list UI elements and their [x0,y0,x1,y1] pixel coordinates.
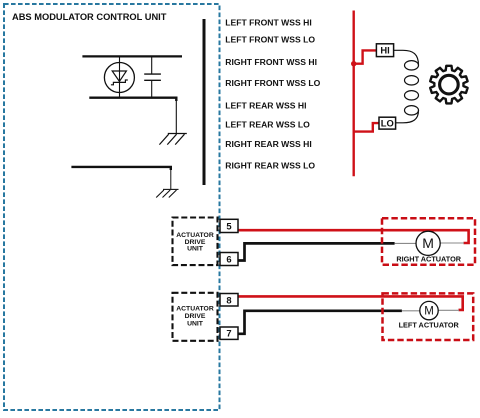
svg-text:LEFT REAR WSS HI: LEFT REAR WSS HI [225,101,306,111]
wire: pin 6 to right actuator (black) [238,243,395,260]
wire: HI terminal to coil [394,50,419,65]
tone ring (gear) [430,66,467,104]
svg-text:RIGHT FRONT WSS HI: RIGHT FRONT WSS HI [225,57,317,67]
svg-text:LEFT REAR WSS LO: LEFT REAR WSS LO [225,119,310,129]
wire: pin 7 to left actuator (black) [238,311,402,334]
ground (upper) [159,134,186,145]
svg-text:LEFT FRONT WSS HI: LEFT FRONT WSS HI [225,18,311,28]
wire: red branch to LO terminal [354,123,379,132]
wire: lower bus [89,98,176,101]
inductor: wheel speed sensor coil [405,61,419,115]
wire: WSS supply main (red) [353,11,355,177]
wire: top bus [82,55,182,57]
wire: red branch to HI terminal [354,50,377,63]
svg-text:8: 8 [226,294,231,305]
svg-text:RIGHT REAR WSS LO: RIGHT REAR WSS LO [225,160,315,170]
motor M (right actuator) [416,231,440,255]
junction: HI branch [351,61,356,66]
svg-text:M: M [422,235,434,251]
svg-text:ACTUATOR: ACTUATOR [176,306,214,313]
wire: lead to lower ground [170,168,172,189]
pin 8 [220,294,238,307]
actuator drive unit 1 (black dashed box) [173,218,218,266]
svg-text:7: 7 [226,328,231,339]
svg-text:LEFT ACTUATOR: LEFT ACTUATOR [399,321,460,330]
capacitor C1 [144,56,161,97]
label: ACTUATOR DRIVE UNIT (upper) [176,232,214,253]
pin 5 [220,219,238,232]
left actuator enclosure (red dashed box) [383,293,474,340]
label: ACTUATOR DRIVE UNIT (lower) [176,306,214,328]
ground (lower) [156,189,178,197]
svg-text:LEFT FRONT WSS LO: LEFT FRONT WSS LO [225,35,315,45]
motor lead left (right actuator) [395,242,416,244]
motor lead right (left actuator) [438,309,459,311]
svg-text:5: 5 [226,221,231,232]
actuator drive unit 2 (black dashed box) [173,293,218,341]
pin 7 [220,327,238,339]
right actuator enclosure (red dashed box) [382,218,475,265]
wire: lead to upper ground [175,99,177,134]
zener diode D1 [104,56,134,97]
motor M (left actuator) [420,301,438,319]
connector bar [203,19,206,185]
svg-text:RIGHT ACTUATOR: RIGHT ACTUATOR [396,255,461,264]
svg-text:HI: HI [380,45,389,56]
svg-text:M: M [424,306,434,318]
svg-text:DRIVE: DRIVE [185,313,206,320]
motor lead left (left actuator) [402,310,420,312]
svg-text:UNIT: UNIT [187,246,204,253]
svg-text:6: 6 [226,254,231,265]
wire: coil to LO terminal [396,110,419,123]
motor lead right (right actuator) [440,242,464,244]
svg-text:LO: LO [381,118,394,129]
svg-text:UNIT: UNIT [187,321,204,328]
wire: third bus [71,167,170,170]
terminal HI [376,44,393,57]
wire: pin 8 to left actuator (red) [238,296,463,310]
svg-text:RIGHT FRONT WSS LO: RIGHT FRONT WSS LO [225,78,320,88]
pin 6 [220,253,238,266]
svg-text:RIGHT REAR WSS HI: RIGHT REAR WSS HI [225,139,311,149]
wire: pin 5 to right actuator (red) [238,230,469,243]
ABS modulator control unit enclosure (teal dashed box) [4,4,220,410]
terminal LO [379,117,396,129]
svg-text:ABS MODULATOR CONTROL UNIT: ABS MODULATOR CONTROL UNIT [12,12,167,22]
